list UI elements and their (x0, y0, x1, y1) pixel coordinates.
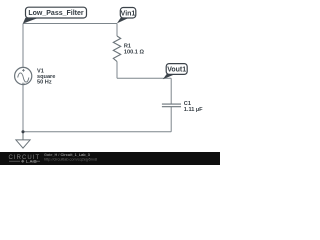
svg-text:1.11 µF: 1.11 µF (184, 107, 203, 113)
svg-text:50 Hz: 50 Hz (37, 79, 52, 85)
svg-text:Low_Pass_Filter: Low_Pass_Filter (28, 10, 84, 17)
svg-text:http://circuitlab.com/cq2ejy5n: http://circuitlab.com/cq2ejy5nx8 (44, 157, 97, 161)
svg-text:Vout1: Vout1 (167, 67, 186, 74)
svg-text:LAB: LAB (26, 159, 37, 164)
svg-text:100.1 Ω: 100.1 Ω (124, 50, 145, 56)
svg-text:Vin1: Vin1 (121, 10, 136, 17)
